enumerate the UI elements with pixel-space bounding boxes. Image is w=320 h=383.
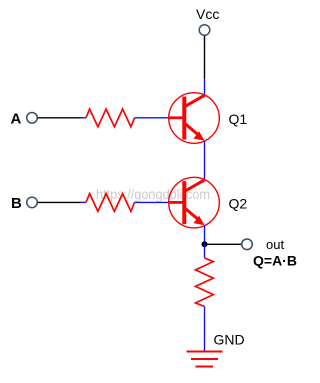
wire A black <box>38 117 81 119</box>
resistor RB <box>86 194 135 212</box>
terminal A <box>27 113 38 124</box>
wire resistor to ground (blue) <box>204 307 206 352</box>
svg-text:Q1: Q1 <box>229 111 248 127</box>
wire B black <box>38 201 81 203</box>
svg-text:out: out <box>266 237 284 252</box>
terminal out <box>242 239 253 250</box>
wire B blue to Q2 base <box>135 201 170 203</box>
node junction dot <box>202 241 208 247</box>
wire Vcc to Q1 collector (black part) <box>204 36 206 79</box>
wire node to resistor (blue) <box>204 244 206 258</box>
ground symbol <box>187 352 223 367</box>
svg-text:https://gongdoli.com: https://gongdoli.com <box>96 186 210 202</box>
svg-text:Q2: Q2 <box>229 196 248 212</box>
resistor RA <box>86 109 135 127</box>
terminal B <box>27 197 38 208</box>
svg-text:Q=A·B: Q=A·B <box>253 253 297 269</box>
wire node to out terminal (black) <box>205 243 242 245</box>
wire Q1 collector pin (blue part) <box>204 79 206 96</box>
wire A blue to Q1 base <box>135 117 170 119</box>
wire A blue stub left of R <box>81 117 87 119</box>
wire Q1 emitter to Q2 collector <box>204 141 206 180</box>
transistor Q2 <box>169 177 220 228</box>
transistor Q1 <box>169 93 220 144</box>
wire Q2 emitter to output node <box>204 225 206 244</box>
resistor RL (vertical) <box>196 258 214 307</box>
svg-text:GND: GND <box>214 332 245 348</box>
svg-text:B: B <box>11 195 22 212</box>
svg-text:Vcc: Vcc <box>196 6 219 22</box>
svg-text:A: A <box>11 111 22 128</box>
terminal Vcc <box>199 25 210 36</box>
wire B blue stub left of R <box>81 201 87 203</box>
